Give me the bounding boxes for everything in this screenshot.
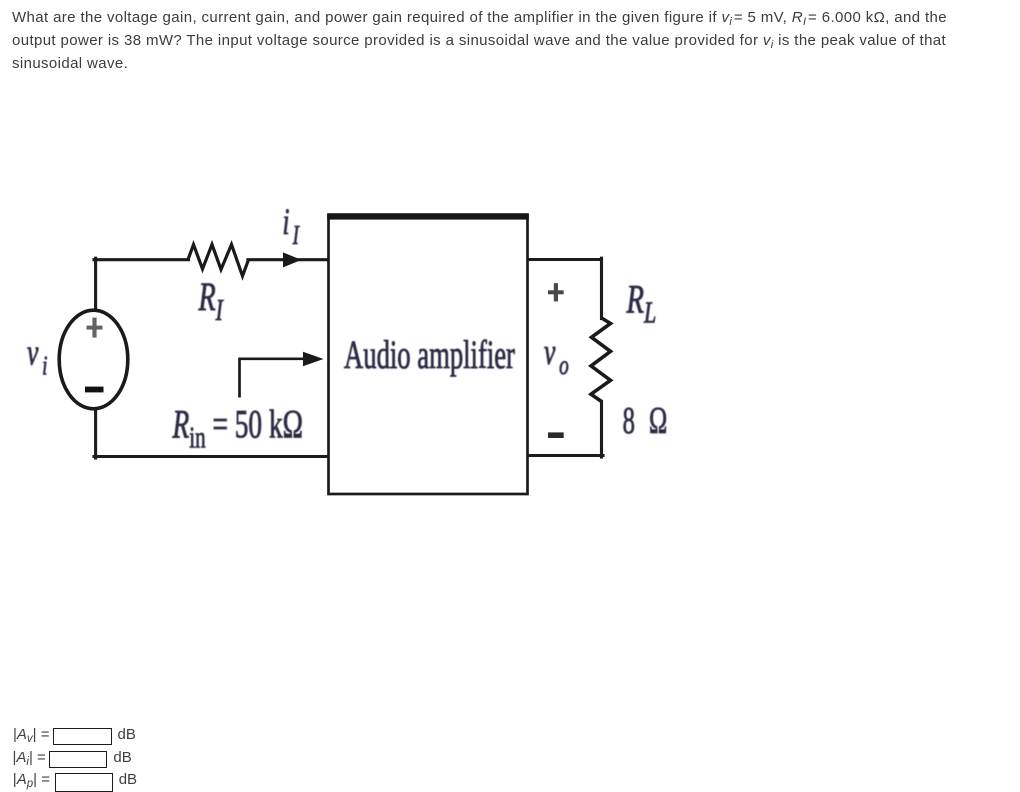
wire: right vertical bottom (load to bottom) (600, 402, 603, 458)
R_in arrow (bent) (240, 359, 304, 398)
source plus sign (87, 318, 103, 338)
answer row Ai unit (113, 748, 131, 767)
label i_I (283, 201, 300, 251)
svg-text:Audio amplifier: Audio amplifier (344, 334, 515, 378)
source minus sign (85, 387, 104, 393)
amplifier box thick top edge (327, 213, 529, 219)
label v_o (544, 331, 569, 381)
label 8 Ohm (623, 399, 672, 442)
output plus sign (548, 283, 564, 301)
svg-text:iI: iI (283, 201, 300, 251)
answer row Ai label (13, 748, 46, 769)
amplifier box U1 (329, 215, 528, 494)
source V1 (ellipse) (59, 310, 128, 409)
label v_i (27, 332, 48, 382)
answer row Av label (13, 725, 50, 746)
wire: left vertical bottom (source to bottom rail) (94, 409, 97, 458)
answer row Av unit (118, 725, 136, 744)
svg-text:Rin = 50 kΩ: Rin = 50 kΩ (172, 402, 303, 454)
output minus sign (548, 432, 564, 438)
wire: top left horizontal (source to zigzag) (94, 258, 189, 261)
svg-text:8 Ω: 8 Ω (623, 399, 672, 442)
wire: output top (box to load) (527, 258, 602, 261)
svg-text:vo: vo (544, 331, 569, 381)
answer row Ap label (13, 770, 50, 791)
answer row Ap unit (119, 770, 137, 789)
svg-text:vi: vi (27, 332, 48, 382)
question text (12, 7, 947, 75)
wire: top horizontal (zigzag to amplifier box) (248, 258, 329, 261)
wire: output bottom (box to load) (527, 454, 603, 457)
wire: right vertical top (into load) (600, 258, 603, 318)
svg-text:RI: RI (198, 274, 224, 327)
R_in arrowhead (303, 352, 324, 366)
answer row Ap input box (55, 773, 113, 792)
resistor R_L zigzag (591, 318, 611, 402)
current arrowhead i_I (283, 252, 302, 267)
wire: left vertical top (source top stub) (94, 258, 97, 310)
answer row Av input box (53, 728, 112, 745)
label R_in = 50 kOhm (172, 402, 303, 454)
resistor R_I zigzag (188, 245, 249, 277)
label Audio amplifier (344, 334, 515, 378)
wire: bottom rail left (94, 455, 329, 458)
svg-text:RL: RL (626, 277, 657, 330)
answer row Ai input box (49, 751, 107, 768)
label R_L (626, 277, 657, 330)
label R_I (198, 274, 224, 327)
